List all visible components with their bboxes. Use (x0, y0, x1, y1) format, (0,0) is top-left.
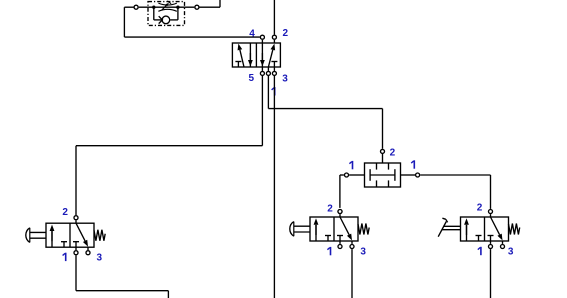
svg-text:3: 3 (508, 247, 514, 258)
svg-text:5: 5 (249, 73, 255, 84)
svg-text:2: 2 (390, 147, 396, 158)
svg-text:3: 3 (360, 247, 366, 258)
svg-text:2: 2 (477, 203, 483, 214)
svg-text:3: 3 (97, 252, 103, 263)
svg-text:4: 4 (249, 29, 255, 40)
svg-text:2: 2 (283, 28, 289, 39)
svg-text:2: 2 (62, 207, 68, 218)
svg-text:2: 2 (327, 204, 333, 215)
svg-text:3: 3 (282, 74, 288, 85)
